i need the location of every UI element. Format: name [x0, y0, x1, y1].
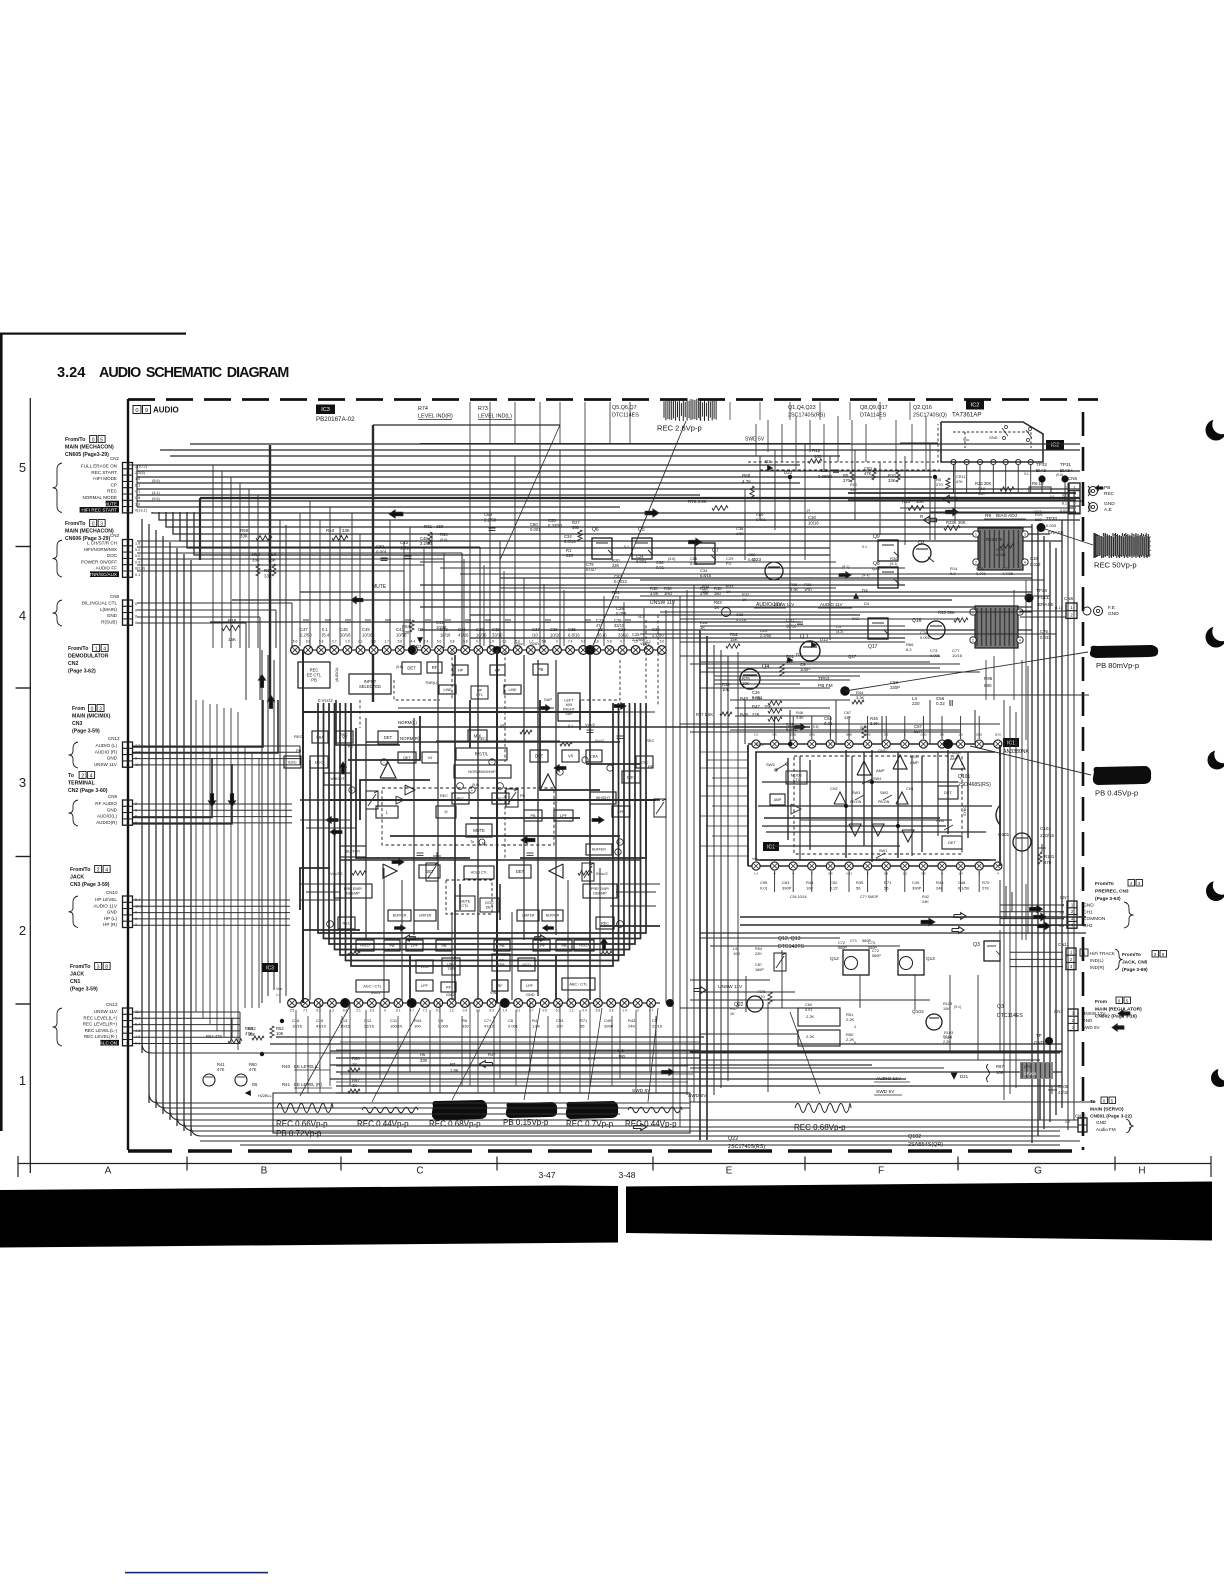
svg-text:IC1: IC1	[767, 844, 775, 850]
svg-text:1/50: 1/50	[736, 531, 745, 536]
svg-text:C71: C71	[850, 939, 857, 943]
svg-text:LEVEL IND(R): LEVEL IND(R)	[418, 414, 453, 420]
svg-text:220: 220	[566, 553, 574, 558]
svg-text:SW5: SW5	[756, 743, 763, 747]
svg-text:1.0: 1.0	[135, 477, 140, 481]
svg-text:100: 100	[806, 886, 813, 891]
svg-text:33K: 33K	[850, 488, 857, 492]
svg-text:VCO: VCO	[522, 963, 530, 967]
svg-text:CN5: CN5	[1068, 476, 1077, 481]
svg-text:R23: R23	[946, 520, 954, 525]
svg-text:Q6: Q6	[592, 527, 599, 533]
svg-text:BIAS ADJ: BIAS ADJ	[996, 513, 1018, 519]
svg-text:From: From	[72, 706, 85, 712]
svg-text:SWD 5V: SWD 5V	[1082, 1025, 1101, 1030]
svg-text:10/16: 10/16	[952, 653, 963, 658]
svg-text:REC: REC	[646, 738, 655, 743]
transistor Q102	[926, 1014, 942, 1030]
svg-text:8: 8	[105, 964, 108, 970]
svg-text:From/To: From/To	[68, 646, 88, 652]
svg-text:0.1: 0.1	[862, 545, 867, 549]
svg-text:PB: PB	[648, 764, 654, 769]
svg-text:10/16: 10/16	[340, 633, 351, 638]
svg-text:0: 0	[135, 621, 137, 625]
svg-text:IC3: IC3	[266, 965, 274, 971]
svg-text:PB 80mVp-p: PB 80mVp-p	[1096, 661, 1139, 670]
svg-text:0.22: 0.22	[936, 701, 945, 706]
svg-text:CP1: CP1	[1024, 1065, 1031, 1069]
bottom bus	[276, 1036, 704, 1038]
svg-text:10/16: 10/16	[292, 1024, 303, 1029]
svg-text:TER: TER	[497, 963, 505, 967]
svg-text:(5.6): (5.6)	[995, 733, 1001, 737]
svg-text:R/ST/L: R/ST/L	[475, 752, 489, 757]
svg-text:R42: R42	[922, 895, 929, 899]
svg-text:10/16: 10/16	[808, 521, 819, 526]
svg-text:27K: 27K	[982, 886, 989, 891]
lower center blocks	[334, 884, 372, 898]
svg-text:5.5: 5.5	[135, 554, 140, 558]
svg-text:Q13: Q13	[926, 956, 935, 961]
svg-text:C54 10/16: C54 10/16	[790, 895, 807, 899]
svg-text:560P: 560P	[868, 946, 877, 950]
CN10 wires	[133, 899, 290, 901]
svg-text:GND: GND	[446, 993, 455, 997]
waveform PB 80mVp-p	[1090, 645, 1158, 658]
svg-text:2.2K: 2.2K	[846, 1017, 855, 1022]
svg-text:BUFFER: BUFFER	[393, 914, 407, 918]
svg-text:1.4: 1.4	[754, 872, 759, 876]
svg-text:NORM/MIX/HIFI: NORM/MIX/HIFI	[468, 769, 496, 774]
svg-text:SYNC: SYNC	[963, 806, 967, 816]
svg-text:REC 0.44Vp-p: REC 0.44Vp-p	[357, 1120, 409, 1129]
svg-text:C68: C68	[484, 512, 493, 517]
svg-text:AUDIO (R): AUDIO (R)	[95, 749, 118, 754]
svg-text:180: 180	[714, 591, 722, 596]
svg-text:5: 5	[100, 437, 103, 443]
svg-text:6.8/16: 6.8/16	[564, 539, 576, 544]
svg-text:CN3: CN3	[110, 533, 119, 538]
svg-text:REC: REC	[1104, 491, 1115, 497]
svg-text:DET: DET	[407, 665, 416, 670]
svg-text:7.1: 7.1	[423, 1009, 428, 1013]
svg-text:CN8: CN8	[110, 594, 119, 599]
svg-text:0.033: 0.033	[1040, 635, 1051, 640]
svg-text:R46: R46	[796, 711, 803, 715]
svg-text:47/16: 47/16	[736, 617, 747, 622]
svg-text:33K: 33K	[264, 574, 272, 579]
svg-text:AUDIO(R): AUDIO(R)	[96, 820, 117, 825]
svg-text:JACK, CN5: JACK, CN5	[1122, 960, 1148, 966]
svg-text:33K: 33K	[888, 478, 896, 483]
svg-text:SW1: SW1	[879, 849, 887, 853]
svg-text:CH2: CH2	[830, 787, 838, 791]
svg-text:0: 0	[92, 437, 95, 443]
svg-text:R54: R54	[440, 532, 448, 537]
svg-text:3.6: 3.6	[135, 502, 140, 506]
svg-text:R72 3.9K: R72 3.9K	[688, 499, 707, 504]
svg-text:0.001: 0.001	[756, 517, 767, 522]
extra drops into top pin row	[299, 513, 301, 646]
svg-text:D4: D4	[862, 588, 868, 593]
svg-text:560P: 560P	[872, 954, 881, 958]
svg-text:NORMAL MODE: NORMAL MODE	[82, 495, 117, 500]
svg-text:0.1: 0.1	[358, 640, 363, 644]
svg-text:MAIN (MECHACON): MAIN (MECHACON)	[65, 445, 114, 451]
svg-text:390P: 390P	[912, 886, 922, 891]
svg-text:C36: C36	[550, 627, 558, 632]
svg-text:4: 4	[1024, 561, 1026, 565]
svg-text:B/L,INGUAL CTL: B/L,INGUAL CTL	[82, 601, 118, 606]
svg-text:CN10: CN10	[106, 890, 118, 895]
svg-text:MAIN (MIC/MIX): MAIN (MIC/MIX)	[72, 714, 111, 720]
svg-text:DEC: DEC	[315, 759, 324, 764]
svg-text:0.01: 0.01	[760, 886, 769, 891]
svg-text:C73: C73	[868, 941, 875, 945]
svg-text:R73: R73	[478, 406, 488, 412]
svg-text:+: +	[351, 788, 354, 793]
svg-text:C9: C9	[836, 624, 842, 629]
svg-text:REC 0.7Vp-p: REC 0.7Vp-p	[566, 1120, 614, 1129]
svg-text:4: 4	[1019, 639, 1021, 643]
svg-text:JACK: JACK	[70, 875, 84, 881]
svg-text:From/To: From/To	[65, 437, 85, 443]
variable attenuator slashes	[366, 791, 378, 809]
svg-text:BUFFER: BUFFER	[546, 914, 560, 918]
svg-text:GND: GND	[107, 613, 118, 618]
svg-text:REC LEVEL(L+): REC LEVEL(L+)	[83, 1015, 117, 1020]
svg-text:Q3: Q3	[973, 942, 980, 948]
svg-text:33/10: 33/10	[492, 633, 503, 638]
svg-text:UNSW 11V: UNSW 11V	[650, 600, 676, 606]
svg-text:150: 150	[702, 589, 709, 594]
svg-text:C7? SMOP: C7? SMOP	[860, 895, 879, 899]
svg-text:10K: 10K	[248, 1032, 256, 1037]
svg-text:Vcc/2O: Vcc/2O	[330, 872, 342, 876]
svg-text:2: 2	[19, 923, 26, 938]
svg-text:COMMON: COMMON	[1083, 916, 1106, 922]
svg-text:AUDIO 11V: AUDIO 11V	[876, 1076, 902, 1082]
svg-text:PRE/REC, CN3: PRE/REC, CN3	[1095, 889, 1129, 895]
svg-text:Q17: Q17	[848, 654, 857, 659]
svg-text:D21: D21	[960, 1074, 969, 1079]
svg-text:LPF: LPF	[526, 984, 534, 988]
svg-text:R9: R9	[985, 513, 991, 519]
center arrows	[389, 510, 403, 518]
svg-text:C41: C41	[458, 627, 466, 632]
svg-text:0.001: 0.001	[636, 559, 647, 564]
svg-text:SW4: SW4	[873, 777, 881, 781]
svg-text:R6: R6	[462, 1018, 468, 1023]
svg-text:2.2K: 2.2K	[806, 1014, 815, 1019]
svg-text:3.9K: 3.9K	[650, 591, 659, 596]
svg-text:From: From	[1095, 999, 1107, 1005]
internal function boxes	[298, 662, 330, 688]
verticals dropping from top bus to IC3 pins	[212, 465, 214, 648]
svg-text:TP33: TP33	[1046, 516, 1057, 521]
svg-text:R10: R10	[978, 487, 985, 491]
more corner fan connecting left bundle to bottom bus	[141, 1052, 143, 1054]
svg-text:18: 18	[482, 841, 486, 845]
svg-text:0: 0	[135, 615, 137, 619]
svg-text:DOC: DOC	[485, 901, 494, 905]
svg-text:1.4: 1.4	[276, 993, 281, 997]
svg-text:C37: C37	[532, 627, 540, 632]
IC3 pin row top	[290, 649, 662, 651]
svg-text:1: 1	[975, 533, 977, 537]
svg-text:6.8: 6.8	[450, 640, 455, 644]
svg-text:R40: R40	[282, 1064, 291, 1069]
dashed internal lines	[394, 680, 440, 700]
svg-text:0.8: 0.8	[135, 496, 140, 500]
svg-text:AUDIO FF: AUDIO FF	[96, 566, 118, 571]
svg-text:IC3: IC3	[321, 407, 330, 413]
svg-text:H: H	[444, 809, 447, 814]
svg-text:C49: C49	[604, 1018, 612, 1023]
more verticals center bottom	[309, 860, 311, 1000]
svg-text:3-48: 3-48	[618, 1170, 635, 1180]
svg-text:C82: C82	[376, 544, 385, 549]
svg-text:0.22: 0.22	[830, 886, 839, 891]
svg-text:R6 10: R6 10	[1032, 481, 1044, 486]
svg-text:HIFI MODE: HIFI MODE	[93, 476, 117, 481]
svg-text:R12: R12	[812, 448, 821, 453]
svg-text:3.24: 3.24	[57, 365, 86, 381]
svg-text:(5.6): (5.6)	[668, 557, 675, 561]
svg-text:.R: .R	[806, 508, 810, 513]
svg-text:C101: C101	[1040, 826, 1051, 831]
svg-text:2: 2	[972, 639, 974, 643]
svg-text:10/16: 10/16	[440, 633, 451, 638]
svg-text:Q12: Q12	[830, 956, 839, 961]
svg-text:56: 56	[580, 1024, 585, 1029]
svg-text:220/16: 220/16	[1040, 833, 1054, 838]
svg-text:C63: C63	[782, 880, 790, 885]
svg-text:R23 30K: R23 30K	[975, 481, 992, 486]
svg-text:POWER ON/OFF: POWER ON/OFF	[81, 559, 117, 564]
svg-text:LIMITER: LIMITER	[419, 914, 432, 918]
svg-text:GND: GND	[989, 436, 998, 440]
svg-text:C39: C39	[492, 627, 500, 632]
IC1 inner bold wires	[755, 751, 995, 753]
svg-text:4.7K: 4.7K	[742, 479, 751, 484]
svg-text:4.4: 4.4	[411, 640, 416, 644]
svg-text:10/16: 10/16	[436, 625, 447, 630]
svg-text:1: 1	[19, 1073, 26, 1088]
mid horizontals	[500, 577, 1032, 579]
svg-text:(Page 3-59): (Page 3-59)	[72, 729, 100, 735]
svg-text:PB: PB	[389, 944, 395, 948]
svg-text:390P: 390P	[782, 886, 792, 891]
svg-text:560: 560	[572, 525, 580, 530]
svg-text:AGC / CTL: AGC / CTL	[363, 984, 382, 988]
svg-text:6.1: 6.1	[135, 483, 140, 487]
svg-text:1.8K: 1.8K	[450, 1068, 459, 1073]
svg-text:7.4: 7.4	[424, 640, 429, 644]
svg-text:R43: R43	[628, 1018, 636, 1023]
svg-text:TP: TP	[1036, 1033, 1042, 1038]
svg-text:33K: 33K	[240, 534, 248, 539]
svg-text:CP: CP	[111, 482, 117, 487]
svg-text:6.8/16: 6.8/16	[568, 633, 580, 638]
svg-text:22K: 22K	[612, 563, 620, 568]
svg-text:R60: R60	[252, 552, 261, 557]
svg-text:0.1: 0.1	[502, 640, 507, 644]
svg-text:Q4: Q4	[762, 664, 769, 670]
svg-text:PRE EMP/: PRE EMP/	[344, 887, 363, 891]
extra horizontals bottom y1100-1145	[200, 1140, 1080, 1142]
svg-text:0.5: 0.5	[542, 1009, 547, 1013]
svg-text:0: 0	[637, 1009, 639, 1013]
svg-text:C12: C12	[364, 1018, 372, 1023]
scan edge marks	[0, 333, 186, 335]
svg-text:NORM(R): NORM(R)	[400, 736, 420, 741]
svg-text:0.001: 0.001	[920, 635, 931, 640]
svg-text:C76: C76	[1040, 629, 1048, 634]
svg-text:HIFI REC START: HIFI REC START	[81, 508, 117, 513]
svg-text:1RD: 1RD	[664, 591, 672, 596]
svg-text:R60: R60	[352, 1056, 360, 1061]
svg-text:0.1: 0.1	[624, 545, 629, 549]
svg-text:C11: C11	[390, 1018, 398, 1023]
svg-text:ESC: ESC	[288, 759, 296, 764]
svg-text:WHIGHT: WHIGHT	[330, 777, 345, 781]
svg-text:(3.0): (3.0)	[860, 725, 867, 729]
svg-text:0: 0	[556, 640, 558, 644]
svg-text:CH2: CH2	[1083, 923, 1093, 929]
svg-text:B: B	[261, 1166, 268, 1177]
svg-text:(Page 3-59): (Page 3-59)	[70, 987, 98, 993]
svg-text:GND: GND	[107, 807, 118, 812]
IC3 pin row bottom	[288, 1002, 660, 1004]
svg-text:8.2: 8.2	[906, 647, 912, 652]
svg-text:ALC ON: ALC ON	[100, 1041, 117, 1046]
svg-text:CP-K01: CP-K01	[1024, 1072, 1037, 1076]
svg-text:REC START: REC START	[91, 470, 117, 475]
svg-text:TNR/SC/AUX: TNR/SC/AUX	[89, 572, 117, 577]
svg-text:470: 470	[1044, 860, 1052, 865]
svg-text:TER: TER	[447, 967, 455, 971]
svg-text:Q12, Q13: Q12, Q13	[778, 936, 801, 942]
svg-text:270: 270	[936, 482, 943, 487]
svg-text:0.5: 0.5	[290, 1009, 295, 1013]
svg-text:JACK: JACK	[70, 972, 84, 978]
svg-text:GND: GND	[530, 641, 539, 646]
svg-text:D12: D12	[852, 616, 860, 621]
svg-text:R4: R4	[532, 1018, 538, 1023]
svg-text:MUTE: MUTE	[372, 584, 387, 590]
svg-text:4: 4	[103, 646, 106, 652]
svg-text:R74: R74	[418, 406, 428, 412]
svg-text:1.4: 1.4	[503, 1009, 508, 1013]
svg-text:C95: C95	[760, 880, 768, 885]
svg-text:A.E: A.E	[1104, 507, 1112, 513]
svg-text:33K: 33K	[268, 558, 276, 563]
svg-text:REC 0.68Vp-p: REC 0.68Vp-p	[429, 1120, 481, 1129]
svg-text:5.8: 5.8	[398, 640, 403, 644]
svg-text:SWD 5V: SWD 5V	[876, 1089, 895, 1095]
svg-text:(AUDIO)L: (AUDIO)L	[335, 667, 339, 682]
svg-text:8.1: 8.1	[1062, 501, 1067, 505]
svg-text:R94: R94	[755, 947, 762, 951]
svg-text:47K: 47K	[864, 471, 872, 476]
svg-text:DTC143TS: DTC143TS	[778, 944, 804, 950]
svg-text:C18: C18	[1030, 556, 1038, 561]
svg-text:REC: REC	[478, 737, 486, 741]
svg-text:LINE: LINE	[509, 688, 518, 692]
svg-text:REC 0.66Vp-p: REC 0.66Vp-p	[276, 1120, 328, 1129]
CN8 wires	[137, 602, 292, 604]
svg-text:1K: 1K	[730, 1012, 735, 1016]
svg-text:Q102: Q102	[912, 1009, 924, 1015]
svg-text:REC 2.6Vp-p: REC 2.6Vp-p	[657, 424, 702, 433]
svg-text:SW2: SW2	[880, 791, 888, 795]
svg-text:5.6: 5.6	[660, 640, 665, 644]
inner bold wires	[302, 650, 304, 1003]
svg-text:R103: R103	[943, 1002, 952, 1006]
svg-text:33/10: 33/10	[614, 623, 625, 628]
CN3 bus wires	[137, 540, 500, 542]
extra right-side verticals	[1025, 580, 1027, 740]
CN13 wires	[133, 745, 300, 747]
svg-text:47/10: 47/10	[316, 1024, 327, 1029]
svg-text:UNSW 11V: UNSW 11V	[94, 1009, 118, 1014]
svg-text:Q102: Q102	[908, 1134, 921, 1140]
svg-text:SAP: SAP	[544, 697, 552, 702]
svg-text:0: 0	[91, 706, 94, 712]
svg-text:PB 0.72Vp-p: PB 0.72Vp-p	[276, 1129, 322, 1138]
svg-text:0.001: 0.001	[752, 695, 763, 700]
svg-text:REC: REC	[342, 921, 350, 925]
svg-text:7.1: 7.1	[303, 1009, 308, 1013]
svg-text:0.022: 0.022	[1030, 562, 1041, 567]
svg-text:2.1: 2.1	[356, 1009, 361, 1013]
svg-text:C45: C45	[362, 627, 370, 632]
svg-text:5.2: 5.2	[135, 548, 140, 552]
svg-text:6.8: 6.8	[950, 571, 956, 576]
svg-text:10K: 10K	[276, 1031, 284, 1036]
svg-text:SW5: SW5	[766, 762, 775, 767]
svg-text:0.4: 0.4	[582, 1009, 587, 1013]
svg-text:DET: DET	[486, 906, 494, 910]
svg-text:REC: REC	[294, 734, 303, 739]
svg-text:3-47: 3-47	[538, 1170, 555, 1180]
svg-text:AUDIO (L): AUDIO (L)	[96, 743, 118, 748]
svg-text:TP32: TP32	[1036, 462, 1047, 467]
dense verticals top right under IC2	[755, 424, 757, 456]
svg-text:RF: RF	[432, 665, 438, 670]
svg-text:2.2/50: 2.2/50	[300, 633, 312, 638]
svg-text:2SC1740S(Q): 2SC1740S(Q)	[913, 413, 947, 419]
svg-text:560P: 560P	[838, 946, 847, 950]
svg-text:5.6: 5.6	[371, 640, 376, 644]
svg-text:0: 0	[135, 408, 138, 414]
svg-text:1: 1	[95, 646, 98, 652]
svg-text:R65 39K: R65 39K	[938, 610, 955, 615]
svg-text:330: 330	[402, 630, 410, 635]
svg-text:24K: 24K	[922, 900, 929, 904]
svg-text:100/10: 100/10	[390, 1024, 403, 1029]
svg-text:R37 1.5K: R37 1.5K	[696, 712, 713, 717]
svg-text:TNR(L): TNR(L)	[425, 681, 438, 685]
svg-text:180P: 180P	[755, 968, 764, 972]
mid-right horizontals y650-740	[680, 655, 940, 657]
svg-text:CN13: CN13	[108, 736, 120, 741]
svg-text:4: 4	[19, 608, 26, 623]
svg-text:R31: R31	[424, 524, 433, 529]
svg-text:CN3 (Page 3-59): CN3 (Page 3-59)	[70, 882, 110, 888]
svg-text:SWD 5V: SWD 5V	[745, 437, 765, 443]
